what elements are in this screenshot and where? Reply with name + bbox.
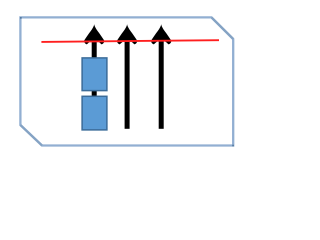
arrow 3 right shaft	[159, 38, 164, 129]
border chamfer top-right (darker diagonal)	[212, 17, 234, 39]
border corner dot bottom-right	[232, 145, 234, 147]
snip-corner rectangle border	[20, 17, 233, 145]
arrow 2 middle shaft	[125, 38, 130, 129]
arrow 2 middle stealth head	[117, 24, 137, 44]
arrow 1 left shaft	[92, 38, 97, 129]
red threshold line (drawn over arrows)	[41, 40, 219, 42]
blue rectangle bottom	[82, 96, 107, 130]
arrow 3 right stealth head	[151, 24, 171, 44]
border corner dot top-left	[20, 17, 22, 19]
blue rectangle top	[82, 58, 107, 91]
arrow 1 left stealth head	[84, 24, 104, 44]
border chamfer bottom-left (darker diagonal)	[20, 125, 42, 146]
